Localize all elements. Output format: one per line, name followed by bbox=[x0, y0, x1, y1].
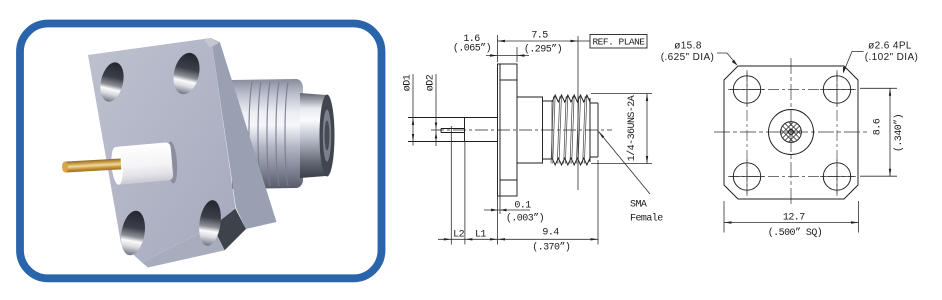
dimension 1/4-36UNS-2A thread bbox=[591, 94, 652, 164]
bolt hole centerlines bbox=[728, 70, 856, 196]
white PTFE insulator bbox=[110, 142, 174, 185]
label ø2.6 4PL (.102" DIA) with leader bbox=[843, 40, 918, 73]
svg-text:REF. PLANE: REF. PLANE bbox=[592, 37, 645, 48]
front view flange outline (chamfered square) bbox=[724, 66, 858, 199]
svg-text:(.500” SQ): (.500” SQ) bbox=[768, 227, 823, 239]
svg-text:(.295”): (.295”) bbox=[524, 43, 562, 55]
REF. PLANE label box bbox=[578, 40, 590, 42]
top-right corner chamfer facet bbox=[204, 38, 219, 48]
center interface circles bbox=[769, 110, 814, 155]
svg-text:øD2: øD2 bbox=[426, 74, 437, 91]
flange bottom-right chamfer face bbox=[213, 209, 246, 251]
mounting hole bottom-left bbox=[118, 209, 148, 257]
svg-text:(.003”): (.003”) bbox=[506, 213, 544, 225]
dimension 8.6 (.340") bbox=[860, 88, 905, 176]
mounting hole top-right bbox=[170, 50, 204, 97]
recess behind insulator bbox=[166, 141, 179, 184]
svg-text:(.625" DIA): (.625" DIA) bbox=[661, 52, 715, 63]
dimension 12.7 (.500" SQ) bbox=[724, 201, 859, 239]
connector body shoulder bbox=[517, 97, 552, 163]
flange plate right side face bbox=[211, 38, 277, 229]
svg-text:8.6: 8.6 bbox=[873, 118, 884, 135]
SMA connector 3D photo: ribbed body cylinder bbox=[232, 79, 335, 189]
svg-text:1/4-36UNS-2A: 1/4-36UNS-2A bbox=[626, 95, 638, 161]
mounting hole top-left bbox=[97, 60, 127, 104]
svg-text:ø15.8: ø15.8 bbox=[674, 40, 702, 51]
REF plane line bbox=[577, 36, 579, 190]
svg-text:øD1: øD1 bbox=[403, 74, 414, 91]
flange plate (side view) bbox=[498, 64, 518, 196]
svg-text:L1: L1 bbox=[475, 230, 486, 241]
gold center pin bbox=[62, 158, 122, 172]
body ribs/grooves bbox=[249, 82, 288, 186]
crosshatch on dielectric bbox=[768, 116, 815, 148]
svg-text:ø2.6 4PL: ø2.6 4PL bbox=[868, 40, 912, 51]
thread section 1/4-36UNS-2A bbox=[552, 95, 590, 102]
svg-text:(.102" DIA): (.102" DIA) bbox=[865, 52, 919, 63]
blue rounded border frame bbox=[20, 24, 382, 279]
front view centerlines bbox=[714, 58, 868, 207]
flange bottom face sliver bbox=[142, 226, 225, 267]
svg-text:12.7: 12.7 bbox=[783, 213, 805, 224]
svg-text:L2: L2 bbox=[453, 230, 464, 241]
dielectric D1 outline + extension lines bbox=[408, 118, 498, 142]
svg-text:Female: Female bbox=[630, 213, 663, 225]
dimension 1.6 (.065") flange thickness bbox=[453, 34, 529, 62]
dimension 7.5 (.295") bbox=[498, 31, 579, 62]
mounting holes front view bbox=[733, 76, 760, 103]
SMA Female label with leader bbox=[599, 132, 664, 225]
svg-text:9.4: 9.4 bbox=[542, 227, 559, 238]
mounting hole bottom-right bbox=[196, 199, 223, 247]
svg-text:0.1: 0.1 bbox=[514, 201, 531, 212]
svg-text:(.340”): (.340”) bbox=[893, 114, 905, 152]
mounting hole crosshairs bbox=[730, 73, 854, 194]
connector front end bbox=[590, 98, 598, 162]
center pin (side view) bbox=[441, 129, 465, 133]
dimension ØD1 bbox=[403, 74, 415, 146]
flange plate top face bbox=[88, 38, 219, 61]
svg-text:7.5: 7.5 bbox=[531, 31, 548, 42]
dimensions L2, L1, 9.4 (.370") bbox=[438, 126, 598, 254]
dimension 0.1 (.003") bbox=[484, 196, 544, 245]
label ø15.8 (.625" DIA) with leader bbox=[661, 40, 738, 65]
flange plate front face bbox=[88, 38, 236, 263]
side view centerline bbox=[431, 129, 612, 131]
svg-text:SMA: SMA bbox=[630, 200, 647, 211]
svg-text:(.065”): (.065”) bbox=[453, 42, 491, 54]
svg-text:(.370”): (.370”) bbox=[532, 242, 570, 254]
dimension ØD2 bbox=[426, 74, 438, 146]
